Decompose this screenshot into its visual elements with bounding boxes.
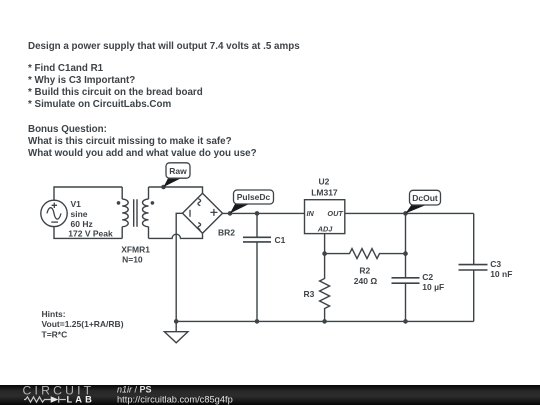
svg-text:LAB: LAB bbox=[67, 395, 95, 405]
svg-text:n1ir / PS: n1ir / PS bbox=[117, 384, 152, 394]
svg-text:http://circuitlab.com/c85g4fp: http://circuitlab.com/c85g4fp bbox=[117, 394, 233, 404]
